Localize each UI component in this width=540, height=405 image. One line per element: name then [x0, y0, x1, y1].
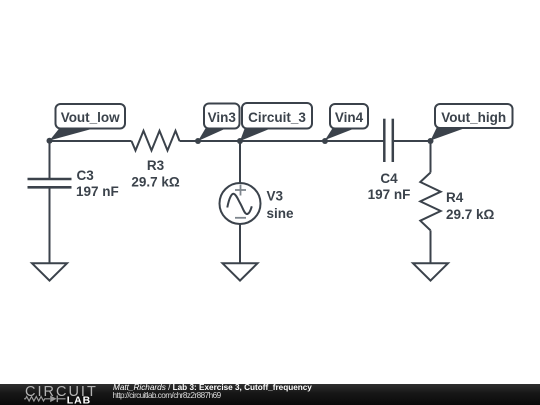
- wire Circuit_3 down to V3: [239, 141, 241, 183]
- svg-text:197 nF: 197 nF: [368, 187, 411, 202]
- node flag Vin4: [330, 104, 368, 129]
- footer bar: [0, 384, 540, 405]
- svg-text:29.7 kΩ: 29.7 kΩ: [131, 175, 180, 190]
- svg-text:Vin3: Vin3: [208, 110, 237, 125]
- wire node A to R3: [50, 140, 132, 142]
- svg-text:R4: R4: [446, 190, 464, 205]
- node flag Vout_high tail: [431, 127, 469, 141]
- wire R3 to node Vin3: [180, 140, 199, 142]
- wire C3 to ground: [49, 187, 51, 263]
- wire C4 to node Vout_high: [393, 140, 431, 142]
- CircuitLab logo diode: [50, 396, 58, 403]
- node flag Circuit_3 tail: [240, 128, 273, 142]
- svg-text:C4: C4: [380, 171, 398, 186]
- capacitor C4: [384, 119, 393, 162]
- node flag Vout_high: [435, 104, 513, 128]
- svg-text:Vout_low: Vout_low: [61, 110, 120, 125]
- svg-text:V3: V3: [267, 189, 284, 204]
- CircuitLab logo circuit glyph: [24, 397, 66, 402]
- ground under R4: [413, 263, 448, 280]
- node flag Vin3 tail: [198, 128, 228, 142]
- wire R4 to ground: [430, 230, 432, 263]
- svg-text:C3: C3: [77, 168, 95, 183]
- node Vin3: [195, 138, 201, 144]
- voltage source V3: [220, 183, 261, 224]
- svg-text:LAB: LAB: [67, 395, 91, 405]
- wire V3 to ground: [239, 224, 241, 263]
- wire Circuit_3 to node Vin4: [240, 140, 325, 142]
- node Vin4: [322, 138, 328, 144]
- node flag Vout_low tail: [50, 128, 98, 141]
- resistor R3: [132, 131, 180, 151]
- node Vout_high: [428, 138, 434, 144]
- wire node A down to C3: [49, 141, 51, 179]
- wire Vin4 to C4: [325, 140, 384, 142]
- svg-text:197 nF: 197 nF: [76, 184, 119, 199]
- node flag Vout_low: [56, 104, 126, 129]
- svg-text:Circuit_3: Circuit_3: [248, 110, 306, 125]
- node Circuit_3: [237, 138, 243, 144]
- svg-text:29.7 kΩ: 29.7 kΩ: [446, 207, 495, 222]
- svg-text:R3: R3: [147, 158, 165, 173]
- node flag Vin3: [204, 104, 240, 129]
- node flag Vin4 tail: [325, 128, 357, 141]
- resistor R4: [420, 173, 440, 231]
- ground under V3: [223, 263, 258, 280]
- wire Vout_high down to R4: [430, 141, 432, 173]
- wire Vin3 to node Circuit_3: [198, 140, 240, 142]
- svg-text:Vout_high: Vout_high: [441, 110, 506, 125]
- node A: [47, 138, 53, 144]
- node flag Circuit_3: [242, 103, 312, 129]
- svg-text:http://circuitlab.com/chr8z2r8: http://circuitlab.com/chr8z2r887h69: [113, 391, 222, 400]
- ground under C3: [32, 263, 67, 280]
- svg-text:Vin4: Vin4: [335, 110, 364, 125]
- svg-text:sine: sine: [267, 206, 295, 221]
- capacitor C3: [28, 179, 72, 187]
